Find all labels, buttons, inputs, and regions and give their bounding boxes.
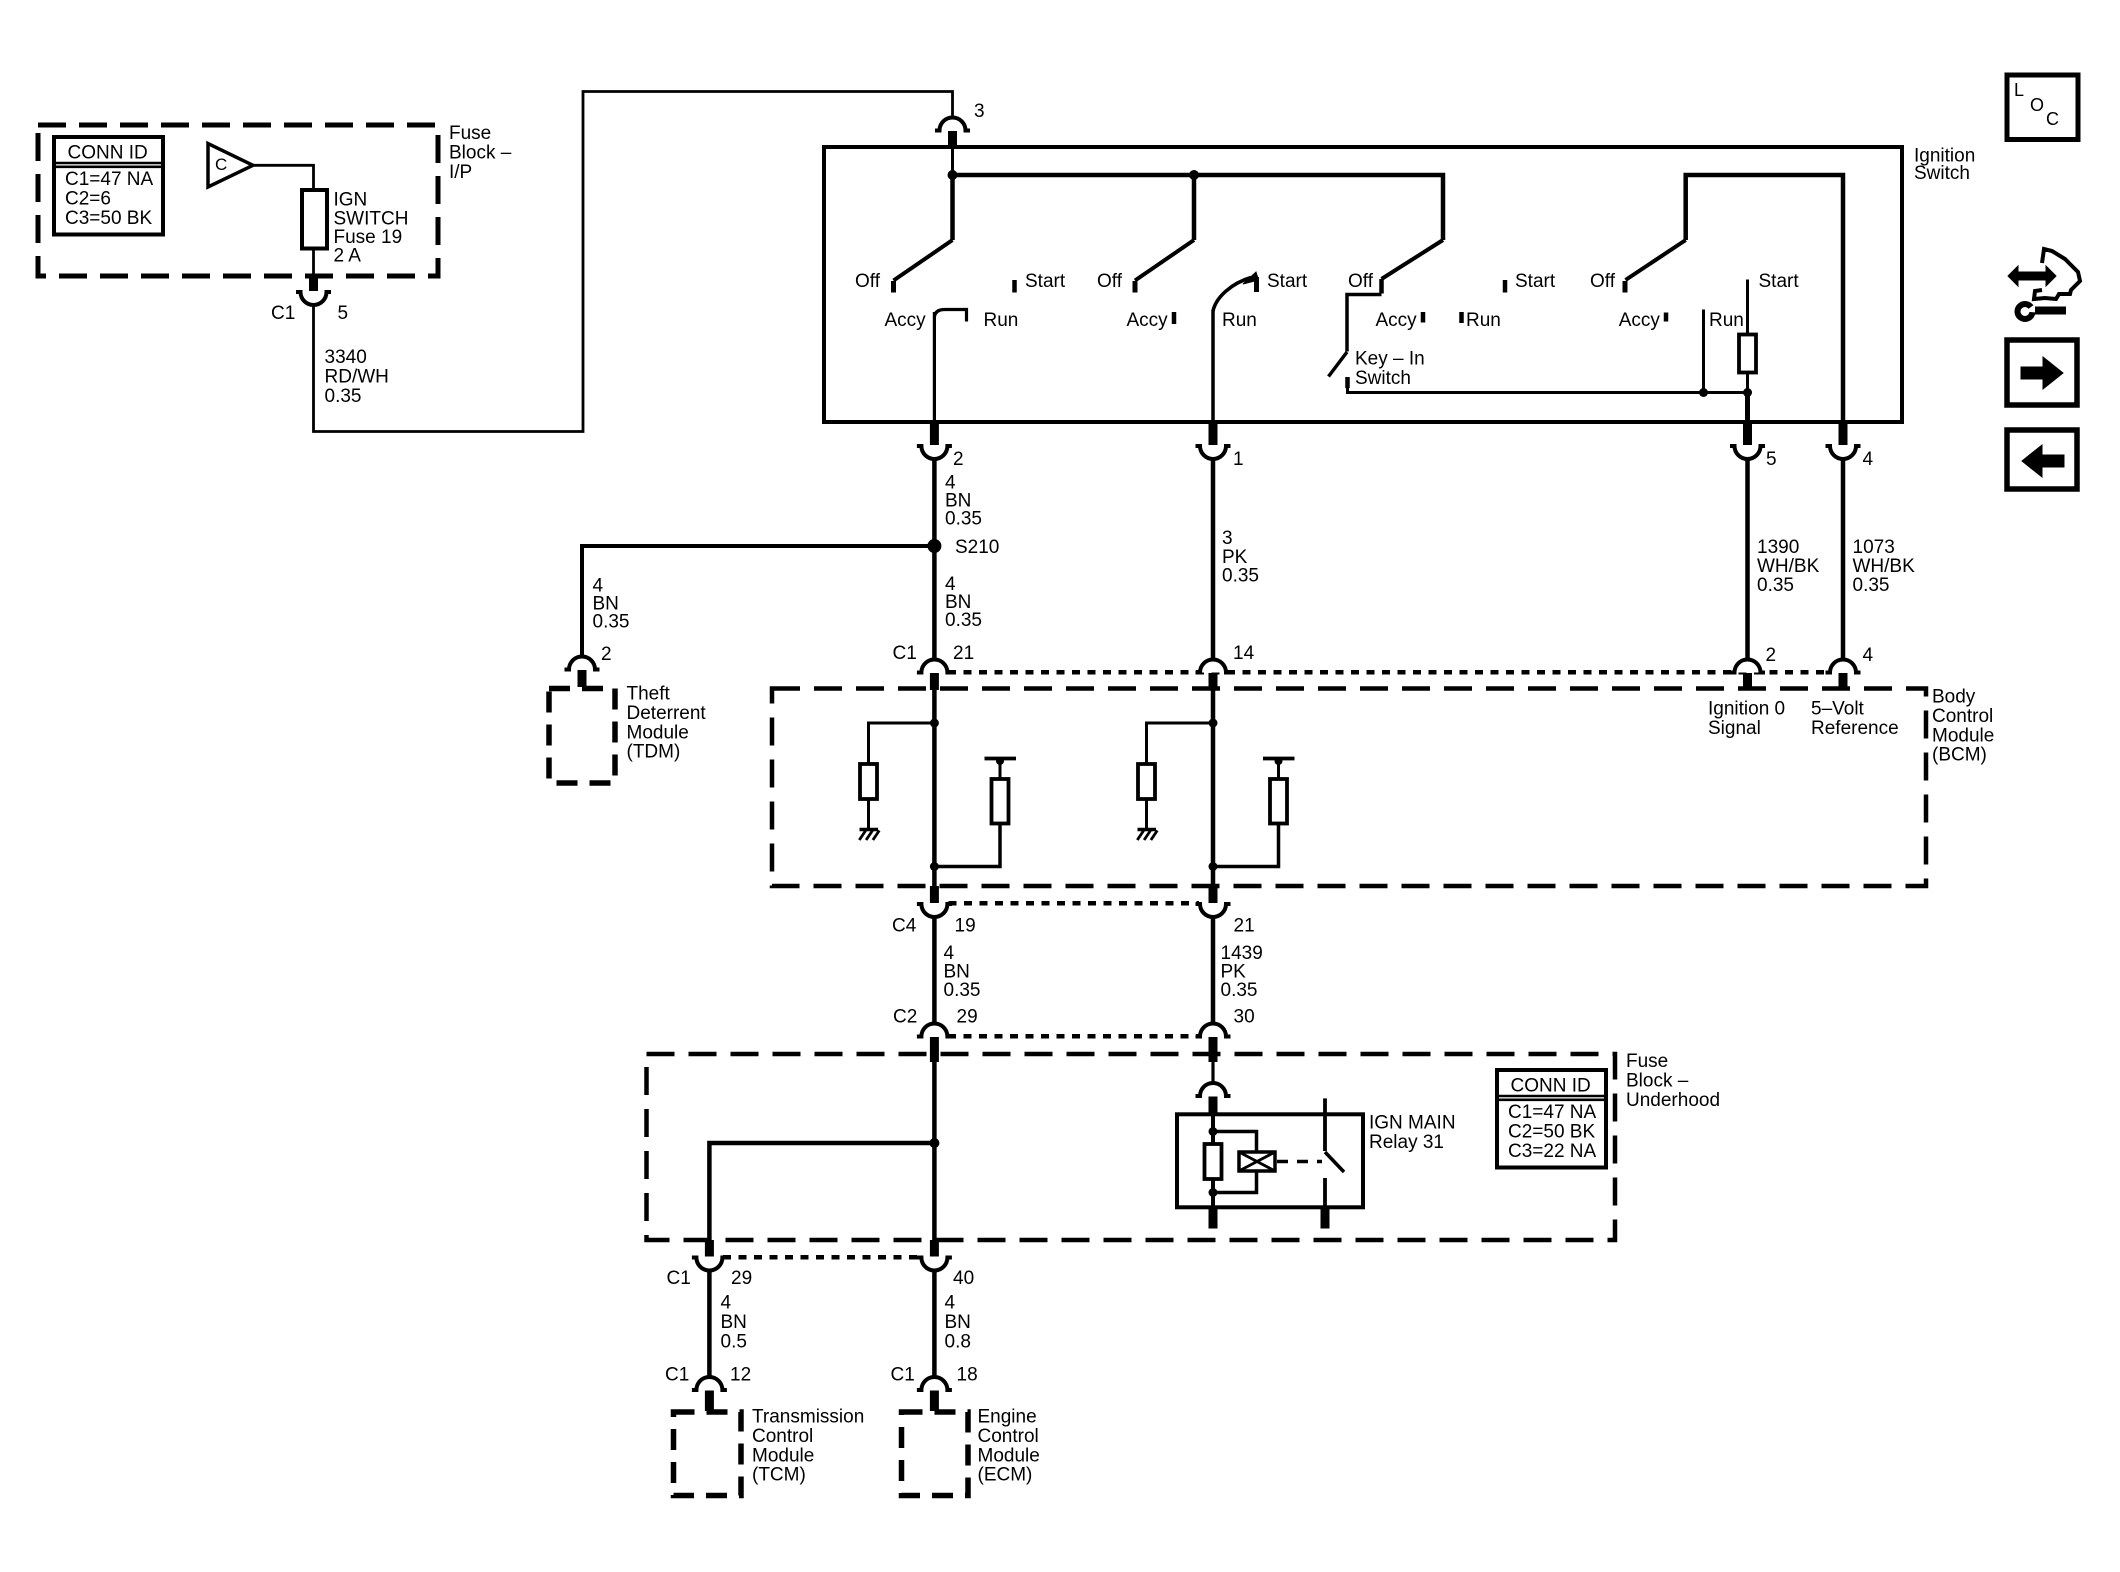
svg-text:Ignition 0: Ignition 0 <box>1708 699 1785 720</box>
junction <box>930 862 939 871</box>
svg-text:0.35: 0.35 <box>1221 980 1258 1001</box>
tools/adjust icon: outline <box>2034 249 2080 299</box>
BCM internal wire pin14 to C4/21 <box>1211 690 1216 886</box>
wire 1073 WH/BK 0.35 pin4 to BCM pin 4 <box>1841 459 1846 660</box>
relay coil-contact dashed link <box>1277 1160 1322 1164</box>
svg-text:Reference: Reference <box>1811 718 1899 739</box>
svg-text:30: 30 <box>1234 1007 1255 1028</box>
switch 4 Accy contact <box>1664 313 1669 322</box>
switch 2 Run-Start curve <box>1213 278 1251 312</box>
svg-text:S210: S210 <box>955 537 999 558</box>
svg-text:C1=47 NA: C1=47 NA <box>1508 1102 1597 1123</box>
wire 4 BN 0.35 pin2 to S210 <box>932 459 937 546</box>
svg-text:C1=47 NA: C1=47 NA <box>65 169 154 190</box>
wire 4 BN 0.5 to TCM <box>707 1271 712 1378</box>
engine control module box <box>902 1412 969 1496</box>
svg-text:29: 29 <box>731 1268 752 1289</box>
wire 4 BN 0.8 to ECM <box>932 1271 937 1378</box>
relay lower contact <box>1323 1178 1327 1208</box>
svg-text:0.35: 0.35 <box>593 612 630 633</box>
resistor (BCM internal) <box>860 764 877 799</box>
connector TCM C1 pin 12 <box>696 1377 722 1390</box>
svg-text:C1: C1 <box>667 1268 691 1289</box>
relay coil (box with X) <box>1239 1152 1275 1171</box>
junction Run/key-in line <box>1699 388 1708 397</box>
svg-text:Start: Start <box>1025 271 1066 292</box>
svg-text:C3=50 BK: C3=50 BK <box>65 208 152 229</box>
svg-text:L: L <box>2014 80 2024 100</box>
connector line C4 dotted <box>949 901 1200 906</box>
svg-text:Run: Run <box>1466 310 1501 331</box>
switch 4 wiper to Off <box>1626 240 1686 280</box>
LOC icon box <box>2007 75 2078 140</box>
svg-text:Off: Off <box>1590 271 1616 292</box>
relay bottom pins <box>1209 1208 1218 1229</box>
svg-text:Underhood: Underhood <box>1626 1090 1720 1111</box>
svg-text:Start: Start <box>1267 271 1308 292</box>
junction resistor/key-in line <box>1743 388 1752 397</box>
junction <box>1209 1127 1218 1136</box>
svg-text:29: 29 <box>957 1007 978 1028</box>
svg-text:18: 18 <box>957 1365 978 1386</box>
forward arrow icon box <box>2007 340 2077 405</box>
connector BCM C1 pin 14 <box>1200 660 1226 673</box>
svg-text:(TCM): (TCM) <box>752 1465 806 1486</box>
svg-text:C2=50 BK: C2=50 BK <box>1508 1122 1595 1143</box>
svg-text:12: 12 <box>730 1365 751 1386</box>
connector BCM C1 pin 2 <box>1735 660 1761 673</box>
svg-text:Accy: Accy <box>1619 310 1661 331</box>
theft deterrent module box <box>549 689 615 784</box>
svg-text:Block –: Block – <box>449 143 512 164</box>
svg-text:2: 2 <box>601 644 612 665</box>
svg-text:Start: Start <box>1759 271 1800 292</box>
resistor (relay internal) <box>1205 1144 1222 1179</box>
svg-text:C1: C1 <box>891 1365 915 1386</box>
svg-text:21: 21 <box>953 643 974 664</box>
switch 3 Off contact <box>1379 279 1384 294</box>
wire S210 to TDM branch <box>582 546 934 657</box>
svg-text:C2: C2 <box>893 1007 917 1028</box>
switch 3 Accy contact <box>1421 312 1426 323</box>
svg-text:Accy: Accy <box>1376 310 1418 331</box>
wire 1390 WH/BK 0.35 pin5 to BCM pin 2 <box>1745 459 1750 660</box>
fuse block I/P dashed box <box>38 125 438 276</box>
junction <box>930 719 939 728</box>
ground (BCM internal) <box>860 828 879 832</box>
transmission control module box <box>674 1412 742 1496</box>
wire C2/29 into fuse block, branch <box>932 1060 937 1240</box>
svg-text:C2=6: C2=6 <box>65 189 111 210</box>
svg-text:40: 40 <box>953 1268 974 1289</box>
svg-text:C4: C4 <box>892 916 917 937</box>
connector C1 pin 5 (fuse block I/P) <box>309 276 318 291</box>
wire 3340 RD/WH 0.35 from C1/5 to ignition switch pin 3 <box>314 92 953 432</box>
switch 3 wiper to Off <box>1382 240 1444 279</box>
svg-text:0.35: 0.35 <box>945 509 982 530</box>
connector fuse block C2 pin 29 <box>921 1024 947 1037</box>
relay IGN MAIN Relay 31 box <box>1177 1114 1363 1207</box>
svg-text:5: 5 <box>1766 449 1777 470</box>
svg-text:CONN ID: CONN ID <box>68 142 148 163</box>
wire 3 PK 0.35 pin1 to BCM pin 14 <box>1211 459 1216 660</box>
resistor (ignition switch internal) <box>1739 335 1756 373</box>
svg-text:4: 4 <box>945 1293 956 1314</box>
svg-text:Engine: Engine <box>978 1407 1037 1428</box>
connector line C1 (underhood bottom) dotted <box>723 1255 921 1260</box>
switch 4 Run contact wire <box>1702 310 1705 393</box>
switch 1 feed wire <box>950 175 955 240</box>
svg-text:0.8: 0.8 <box>945 1331 971 1352</box>
svg-text:2: 2 <box>953 449 964 470</box>
tools/adjust icon: double arrow <box>2008 266 2056 286</box>
svg-text:C: C <box>2046 109 2059 129</box>
svg-text:Relay 31: Relay 31 <box>1369 1132 1444 1153</box>
key-in switch lower contact <box>1345 377 1350 388</box>
svg-text:Module: Module <box>627 722 689 743</box>
BCM internal wire pin21 to C4/19 <box>932 690 937 886</box>
svg-text:RD/WH: RD/WH <box>325 367 389 388</box>
svg-text:BN: BN <box>945 1312 971 1333</box>
switch 2 Start contact <box>1254 277 1259 292</box>
resistor (BCM internal pull-up) <box>992 779 1009 824</box>
switch 2 wiper to Off <box>1135 240 1194 281</box>
connector ECM C1 pin 18 <box>921 1377 947 1390</box>
svg-text:C1: C1 <box>271 303 295 324</box>
wire switch 2 to pin 1 <box>1211 310 1215 423</box>
supply bar <box>1263 757 1295 761</box>
switch 2 Accy contact <box>1172 312 1177 324</box>
svg-text:4: 4 <box>1863 449 1874 470</box>
svg-text:C1: C1 <box>893 643 917 664</box>
svg-text:0.35: 0.35 <box>1853 575 1890 596</box>
svg-text:BN: BN <box>721 1312 747 1333</box>
CONN ID table (underhood): C1=47 NA / C2=50 BK / C3=22 NA <box>1497 1070 1606 1168</box>
svg-text:Run: Run <box>1222 310 1257 331</box>
svg-text:19: 19 <box>955 916 976 937</box>
wire resistor to ground <box>867 799 870 829</box>
svg-text:0.35: 0.35 <box>945 610 982 631</box>
connector pin 5 (ignition switch bottom) <box>1743 424 1752 445</box>
svg-text:Fuse: Fuse <box>1626 1051 1668 1072</box>
ground (BCM internal) <box>1138 828 1157 832</box>
switch 1 Start contact <box>1012 280 1017 293</box>
connector BCM C1 pin 4 <box>1830 660 1856 673</box>
svg-text:2 A: 2 A <box>334 246 362 267</box>
svg-text:I/P: I/P <box>449 162 472 183</box>
connector fuse block C1 pin 40 <box>930 1240 939 1257</box>
svg-text:Switch: Switch <box>1914 163 1970 184</box>
wire from triangle to fuse <box>252 165 314 190</box>
svg-text:3: 3 <box>974 101 985 122</box>
resistor (BCM internal pull-up) <box>1270 779 1287 824</box>
connector fuse block C2 pin 30 <box>1200 1024 1226 1037</box>
svg-text:Signal: Signal <box>1708 718 1761 739</box>
connector IGN MAIN relay pin (coil) <box>1200 1083 1226 1096</box>
connector pin 4 (ignition switch bottom) <box>1839 424 1848 445</box>
connector pin 2 (ignition switch bottom) <box>930 424 939 445</box>
svg-text:Off: Off <box>1097 271 1123 292</box>
connector TDM pin 2 <box>569 657 595 670</box>
svg-text:Start: Start <box>1515 271 1556 292</box>
svg-text:Control: Control <box>752 1426 813 1447</box>
key-in switch open blade <box>1329 352 1348 377</box>
svg-text:Transmission: Transmission <box>752 1407 864 1428</box>
wire resistor to ground <box>1145 799 1148 829</box>
svg-text:0.5: 0.5 <box>721 1331 747 1352</box>
svg-text:0.35: 0.35 <box>1222 565 1259 586</box>
svg-text:Module: Module <box>978 1445 1040 1466</box>
svg-text:Accy: Accy <box>1127 310 1169 331</box>
bus wire from pin3 to switches 1-3 <box>951 148 954 175</box>
svg-text:(TDM): (TDM) <box>627 742 681 763</box>
junction <box>1209 1188 1218 1197</box>
svg-text:5–Volt: 5–Volt <box>1811 699 1865 720</box>
svg-text:21: 21 <box>1234 916 1255 937</box>
relay coil feed wire <box>1211 1114 1215 1144</box>
svg-text:(BCM): (BCM) <box>1932 745 1987 766</box>
svg-text:2: 2 <box>1766 645 1777 666</box>
svg-text:0.35: 0.35 <box>944 980 981 1001</box>
svg-text:Key – In: Key – In <box>1355 349 1425 370</box>
switch 4 Start wire <box>1746 280 1749 335</box>
svg-text:Module: Module <box>1932 725 1994 746</box>
relay coil loop <box>1213 1132 1257 1153</box>
connector line C1 (BCM) dotted <box>948 670 1830 675</box>
svg-text:3340: 3340 <box>325 347 367 368</box>
switch 1 Accy-Run bridge <box>934 310 966 322</box>
svg-text:Control: Control <box>1932 706 1993 727</box>
switch 4 Off contact <box>1623 281 1628 293</box>
svg-text:Deterrent: Deterrent <box>627 703 707 724</box>
svg-text:O: O <box>2030 95 2044 115</box>
switch 2 feed wire <box>1192 175 1197 240</box>
junction <box>1209 862 1218 871</box>
wire 4 BN 0.35 C4/19 to C2/29 <box>932 917 937 1024</box>
wire resistor to relay pin <box>1211 1179 1215 1208</box>
svg-text:(ECM): (ECM) <box>978 1465 1033 1486</box>
svg-text:4: 4 <box>721 1293 732 1314</box>
junction bus/switch2 <box>1189 170 1199 180</box>
svg-text:Body: Body <box>1932 687 1976 708</box>
svg-text:Module: Module <box>752 1445 814 1466</box>
connector pin 3 (ignition switch top) <box>940 118 966 131</box>
wire switch 1 to pin 2 <box>933 312 936 423</box>
switch 1 wiper to Off <box>894 240 953 281</box>
switch 3 Start contact <box>1503 280 1508 293</box>
relay switch contact <box>1323 1098 1327 1151</box>
svg-text:1: 1 <box>1233 449 1244 470</box>
svg-text:4: 4 <box>1863 645 1874 666</box>
svg-text:IGN MAIN: IGN MAIN <box>1369 1113 1456 1134</box>
svg-text:Switch: Switch <box>1355 368 1411 389</box>
key-in switch feed jog <box>1347 295 1382 352</box>
connector fuse block C1 pin 29 <box>705 1240 714 1257</box>
svg-text:CONN ID: CONN ID <box>1511 1075 1591 1096</box>
switch 2 Off contact <box>1133 281 1138 293</box>
svg-text:C3=22 NA: C3=22 NA <box>1508 1141 1597 1162</box>
connector triangle C <box>208 144 253 188</box>
connector BCM C4 pin 19 <box>930 886 939 903</box>
svg-text:Off: Off <box>1348 271 1374 292</box>
junction <box>929 1138 939 1148</box>
svg-text:Theft: Theft <box>627 684 671 705</box>
svg-text:Run: Run <box>1709 310 1744 331</box>
wire 1439 PK 0.35 C4/21 to C2/30 <box>1211 917 1216 1024</box>
splice S210 <box>927 539 941 553</box>
wire S210 to BCM pin 21 <box>932 546 937 660</box>
wire resistor to pin 5 <box>1746 373 1749 393</box>
connector BCM C4 pin 21 <box>1209 886 1218 903</box>
svg-text:0.35: 0.35 <box>325 386 362 407</box>
CONN ID table (I/P): C1=47 NA / C2=6 / C3=50 BK <box>54 137 163 235</box>
svg-text:Run: Run <box>984 310 1019 331</box>
bus wire pin 4 to switch 4 <box>1686 175 1843 423</box>
junction <box>1209 719 1218 728</box>
BCM pulldown branch <box>869 723 935 764</box>
connector line C2 dotted <box>948 1034 1199 1039</box>
svg-text:14: 14 <box>1233 643 1255 664</box>
svg-text:C1: C1 <box>665 1365 689 1386</box>
fuse F19: IGN SWITCH Fuse 19 2A <box>302 190 327 249</box>
ignition switch box <box>824 147 1902 422</box>
arrowhead <box>1243 272 1259 284</box>
svg-text:5: 5 <box>338 303 349 324</box>
relay switch blade <box>1325 1152 1344 1172</box>
svg-text:Accy: Accy <box>885 310 927 331</box>
back arrow icon box <box>2007 430 2077 489</box>
tools/adjust icon: wrench <box>2018 304 2033 319</box>
body control module dashed box <box>772 689 1926 887</box>
connector BCM C1 pin 21 <box>921 660 947 673</box>
svg-text:C: C <box>215 155 227 174</box>
BCM pulldown branch (right) <box>1147 723 1214 764</box>
fuse block underhood dashed box <box>647 1054 1616 1240</box>
svg-text:Block –: Block – <box>1626 1071 1689 1092</box>
switch 3 Run contact <box>1459 312 1464 323</box>
wire fuse to connector C1/5 <box>312 249 315 278</box>
wire key-in switch to pin 5 node <box>1348 388 1748 393</box>
switch 1 Off contact <box>891 281 896 293</box>
connector pin 1 (ignition switch bottom) <box>1209 424 1218 445</box>
junction pin3/bus <box>948 170 958 180</box>
svg-text:Off: Off <box>855 271 881 292</box>
svg-text:Control: Control <box>978 1426 1039 1447</box>
supply bar <box>985 757 1017 761</box>
svg-text:0.35: 0.35 <box>1757 575 1794 596</box>
wire C2/30 to relay connector <box>1211 1060 1214 1083</box>
svg-text:Fuse: Fuse <box>449 123 491 144</box>
resistor (BCM internal) <box>1138 764 1155 799</box>
